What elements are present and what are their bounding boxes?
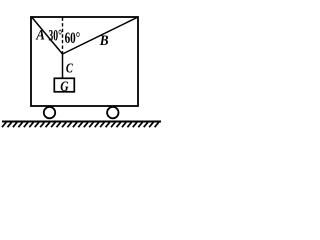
svg-text:C: C [66,62,73,77]
svg-text:B: B [99,33,109,49]
svg-text:30°: 30° [48,27,62,44]
svg-text:60°: 60° [65,30,81,47]
svg-text:A: A [35,28,44,44]
svg-text:G: G [60,79,69,95]
